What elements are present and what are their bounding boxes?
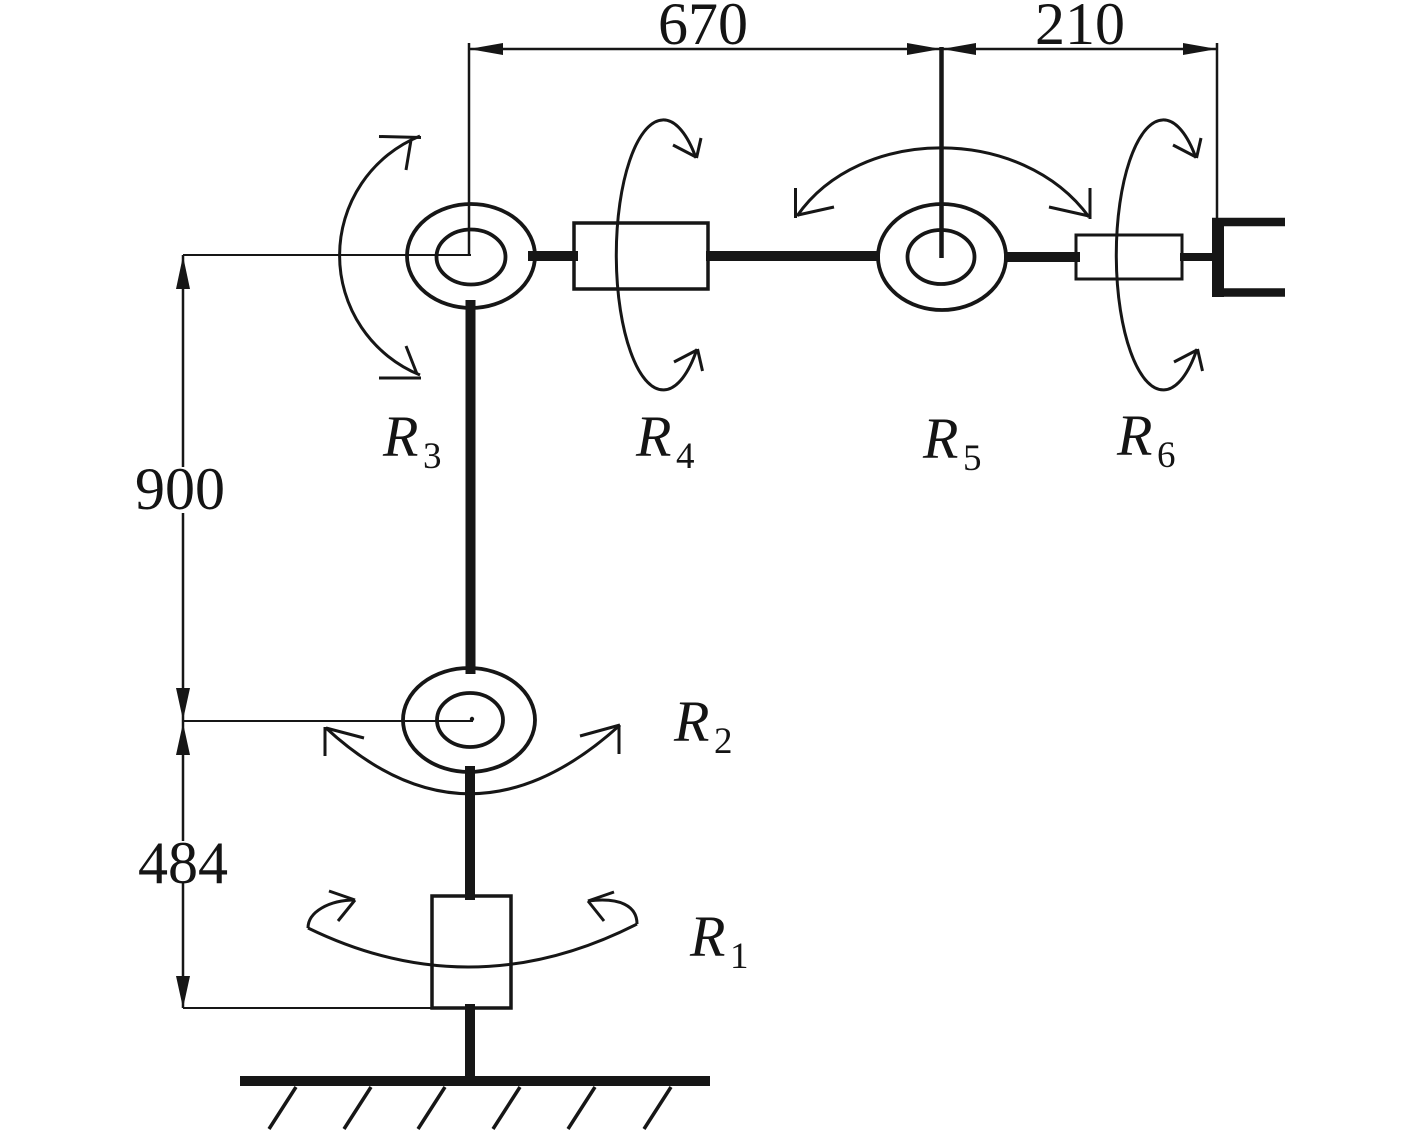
svg-text:2: 2: [714, 721, 733, 762]
svg-text:6: 6: [1157, 435, 1176, 476]
svg-text:R: R: [673, 689, 709, 754]
svg-text:5: 5: [963, 438, 982, 479]
svg-text:4: 4: [676, 436, 695, 477]
svg-text:R: R: [1116, 403, 1152, 468]
svg-text:3: 3: [423, 436, 442, 477]
svg-text:R: R: [689, 904, 725, 969]
svg-text:900: 900: [135, 456, 225, 522]
svg-text:210: 210: [1035, 0, 1125, 57]
svg-text:R: R: [922, 406, 958, 471]
svg-text:R: R: [382, 404, 418, 469]
svg-text:484: 484: [138, 830, 228, 896]
svg-text:R: R: [635, 404, 671, 469]
svg-text:670: 670: [658, 0, 748, 57]
svg-text:1: 1: [730, 936, 749, 977]
